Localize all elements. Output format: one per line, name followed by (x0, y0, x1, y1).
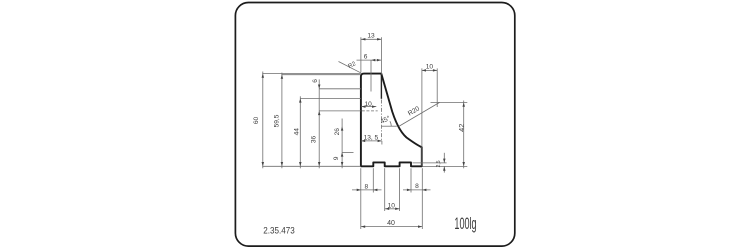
arrow dim 2,5 bottom (443, 167, 446, 171)
svg-text:44: 44 (294, 128, 301, 136)
extension line top edge level (60) (262, 73, 361, 75)
bottom extension line right (422, 165, 467, 167)
svg-text:100lg: 100lg (454, 214, 476, 233)
extension line 13 right (380, 37, 382, 74)
border rounded rectangle (235, 3, 514, 247)
svg-text:6: 6 (312, 79, 319, 83)
svg-text:60: 60 (253, 117, 260, 125)
extension line 44 level (300, 97, 361, 99)
extension line 10tr left (421, 68, 423, 166)
extension line 59.5 level (281, 74, 360, 76)
svg-text:59,5: 59,5 (273, 114, 280, 127)
svg-text:13: 13 (367, 32, 375, 39)
arrow dim 10-top-right right (433, 69, 437, 72)
svg-text:40: 40 (387, 220, 395, 227)
dimension line 10 inner (361, 106, 376, 108)
dimension line 44 (299, 96, 301, 168)
bottom ext vertical notch1 left (372, 168, 374, 192)
arrow dim 6-top right (377, 59, 381, 62)
svg-text:26: 26 (334, 128, 341, 136)
arrow dim 40 left (361, 225, 365, 228)
dashed line 36 level inside profile (362, 110, 378, 112)
dimension line 8 right (403, 189, 431, 191)
dimension line 8 left (352, 189, 382, 191)
bottom ext vertical left edge (360, 168, 362, 229)
svg-text:13, 5: 13, 5 (364, 134, 379, 141)
arrow dim 44 top (299, 98, 302, 102)
dimension line 10 bottom (385, 208, 400, 210)
svg-text:10: 10 (388, 202, 396, 209)
svg-text:R2: R2 (347, 61, 357, 70)
svg-text:R20: R20 (407, 105, 421, 117)
arrow dim 42 top (462, 103, 465, 107)
R20 leader (399, 102, 440, 126)
extension line 6-bottom level (319, 88, 361, 90)
dash-dot line at x 381.5 (381, 100, 383, 141)
extension line 36 level (319, 110, 361, 112)
arrow dim 40 right (418, 225, 422, 228)
extension line 2,5 top level (413, 162, 447, 164)
arrow dim 8-left outer-left (357, 189, 361, 192)
bottom ext vertical notch2 right (410, 168, 412, 192)
dimension line 13 (361, 38, 382, 40)
dimension line 59.5 (281, 73, 283, 169)
extension line 13,5 right tail (381, 141, 383, 145)
dimension line 10 top right (422, 69, 438, 71)
arrow dim 10-inner right (372, 105, 376, 108)
svg-text:2,5: 2,5 (436, 160, 442, 167)
arrow dim 8-left outer-right (373, 189, 377, 192)
dimension line 42 (463, 101, 465, 169)
arrow dim 26 top (341, 126, 344, 130)
arrow dim 13 left (361, 38, 365, 41)
arrow dim 9 top (341, 152, 344, 156)
svg-text:6: 6 (364, 53, 368, 60)
dimension line 40 (361, 226, 423, 228)
inner vertical edge below top-right corner (380, 74, 382, 99)
arrow dim 8-right outer-left (407, 189, 411, 192)
arrow dim 10-bottom right (395, 208, 399, 211)
dimension line 60 (262, 72, 264, 169)
extension line 42 top level (431, 101, 468, 103)
arrow dim 10-inner left (361, 105, 365, 108)
svg-text:36: 36 (311, 136, 318, 144)
texts (253, 32, 466, 227)
45 deg horizontal line (382, 125, 397, 127)
arrow dim 10-top-right left (422, 69, 426, 72)
dimension line 36 and 6 (318, 79, 320, 168)
arrow dim 59.5 bottom (281, 162, 284, 166)
bottom extension line left (262, 165, 361, 167)
kerb profile outline (361, 74, 422, 167)
arrow dim 60 bottom (262, 162, 265, 166)
arrow dim 59.5 top (281, 75, 284, 79)
svg-text:10: 10 (426, 63, 434, 70)
arrow dim 36 bottom (318, 162, 321, 166)
arrow dim 10-bottom left (385, 208, 389, 211)
dimension line 6 top (357, 59, 382, 61)
arrow dim 36 top (318, 111, 321, 115)
45 deg angle arc (390, 121, 391, 126)
arrow dim 8-right outer-right (422, 189, 426, 192)
bottom ext vertical notch1 right (384, 168, 386, 211)
svg-text:42: 42 (457, 124, 466, 132)
extension line 10tr right (436, 68, 438, 107)
extension line 6 left into profile (370, 60, 372, 91)
arrow dim 6-left bottom (318, 85, 321, 89)
dimension line 13,5 (361, 140, 382, 142)
svg-text:10: 10 (365, 101, 373, 108)
svg-text:45°: 45° (379, 114, 392, 126)
R2 leader (339, 62, 361, 73)
arrow dim 44 bottom (299, 162, 302, 166)
extension line 9 level (342, 151, 353, 153)
arrow dim 6-top left (371, 59, 375, 62)
bottom ext vertical notch2 left (399, 168, 401, 211)
svg-text:8: 8 (415, 183, 419, 190)
bottom ext vertical right edge (421, 168, 423, 229)
svg-text:8: 8 (364, 183, 368, 190)
arrow dim 2,5 top (443, 159, 446, 163)
arrow dim 13,5 left (361, 140, 365, 143)
svg-text:2.35.473: 2.35.473 (263, 225, 295, 236)
extension line 13 left (360, 37, 362, 72)
arrow dim 60 top (262, 74, 265, 78)
arrow dim 13,5 right (378, 140, 382, 143)
dimension line 2,5 tails (443, 153, 445, 163)
arrow dim 42 bottom (462, 162, 465, 166)
arrow dim 13 right (377, 38, 381, 41)
svg-text:9: 9 (333, 156, 340, 160)
arrow dim 26/9 bottom (341, 162, 344, 166)
dimension line 26 and 9 (341, 119, 343, 169)
